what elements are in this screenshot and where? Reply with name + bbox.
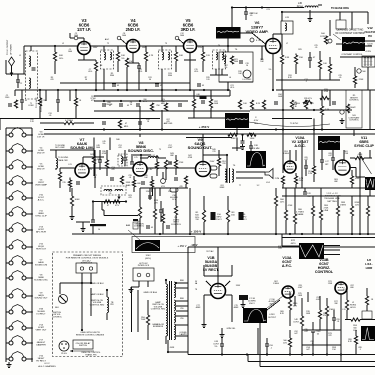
resistor height: [153, 188, 158, 234]
V9 grid parts: [168, 155, 184, 175]
svg-text:2.2M: 2.2M: [308, 173, 313, 175]
sound out texts: [168, 145, 226, 189]
left mid components: [5, 95, 18, 108]
wire y96 seg: [94, 95, 230, 97]
tube V7 6AU6: [70, 137, 94, 178]
+450V text: [177, 244, 186, 248]
video extra text: [278, 94, 299, 125]
wire x340 vert: [330, 12, 340, 36]
wire top plate feed: [231, 6, 304, 27]
resistor V3 cathode: [94, 60, 102, 90]
svg-text:40MF: 40MF: [196, 307, 202, 309]
cap video: [308, 52, 316, 68]
wire IF grid line 2: [90, 45, 127, 47]
wire x360 sync vert: [360, 152, 372, 234]
waveform display B10 (spike): [361, 326, 375, 341]
svg-text:150 V: 150 V: [216, 219, 222, 221]
svg-text:60%: 60%: [365, 184, 369, 186]
pin texts V3: [77, 43, 90, 58]
wire y90 right: [310, 89, 375, 91]
svg-text:PHASE: PHASE: [297, 213, 304, 216]
cap row y226: [146, 226, 170, 229]
resistor vert hold: [171, 188, 182, 234]
resistor vert lin: [134, 188, 145, 234]
svg-text:TAKE OFF: TAKE OFF: [58, 159, 68, 162]
svg-text:140V: 140V: [142, 47, 147, 49]
right mid components: [238, 100, 278, 109]
svg-text:330K: 330K: [126, 182, 131, 184]
wire x162 vert: [161, 69, 163, 101]
svg-text:5%: 5%: [121, 58, 124, 60]
svg-text:5600: 5600: [234, 61, 238, 63]
svg-text:2.5V: 2.5V: [343, 289, 348, 291]
resistor 47 pair: [104, 200, 120, 207]
wire y196 right: [282, 195, 375, 197]
svg-text:10%: 10%: [299, 180, 303, 182]
svg-text:450 V: 450 V: [249, 303, 255, 305]
mid resistor R50: [141, 300, 150, 340]
svg-text:.1: .1: [311, 343, 313, 345]
socket column top wire: [6, 127, 32, 129]
wire y118 corner: [272, 119, 314, 130]
svg-text:47%: 47%: [91, 100, 95, 102]
wire V4 plate: [132, 53, 134, 59]
svg-text:1000: 1000: [96, 147, 100, 149]
svg-text:TO I.F. AGC: TO I.F. AGC: [35, 97, 38, 108]
svg-text:2ND I.F.: 2ND I.F.: [126, 27, 141, 32]
svg-text:GRN-YEL: GRN-YEL: [227, 328, 237, 330]
wire IF agc drops: [46, 90, 70, 101]
svg-text:50: 50: [130, 104, 132, 106]
right col texts: [288, 75, 342, 93]
components row y100: res: [38, 90, 46, 118]
svg-text:.0047: .0047: [298, 287, 303, 289]
wire y215 right: [104, 210, 138, 216]
svg-text:680: 680: [350, 287, 353, 289]
waveform display B6 (sync out): [365, 177, 375, 190]
svg-text:3300: 3300: [110, 75, 114, 77]
bottom res 148: [293, 298, 303, 355]
svg-text:R35 47%: R35 47%: [304, 98, 312, 100]
right top mid box: [336, 20, 346, 29]
V7 plate wire: [83, 154, 104, 165]
wire y110 agc long: [250, 109, 352, 111]
pin cap V5 grid: [175, 36, 184, 44]
wire x190 vert: [184, 53, 196, 61]
svg-text:BIAS: BIAS: [126, 224, 131, 227]
svg-text:C2: C2: [20, 83, 22, 85]
svg-text:TO SOUND: TO SOUND: [58, 157, 69, 159]
cap V8: [118, 150, 127, 166]
svg-text:T4: T4: [218, 45, 220, 47]
coil sound disc: [140, 155, 166, 158]
svg-text:5%: 5%: [103, 143, 106, 145]
svg-text:5%: 5%: [215, 346, 218, 348]
svg-text:SETTING: SETTING: [327, 201, 337, 203]
tube V3 6CB6: [77, 18, 91, 55]
horiz top texts: [323, 193, 342, 203]
svg-text:INTERLOCK: INTERLOCK: [81, 263, 93, 265]
svg-text:10%: 10%: [355, 204, 359, 206]
remote coil TB: [107, 290, 114, 320]
svg-text:470K: 470K: [324, 91, 329, 93]
wire x290 up: [283, 150, 290, 173]
left heater resistor: [69, 188, 80, 219]
svg-text:.05%: .05%: [138, 71, 143, 73]
bottom res 290: [283, 330, 292, 355]
waveform display B9 (horiz out): [243, 308, 267, 323]
wire det bottom: [219, 82, 253, 90]
svg-text:.1: .1: [359, 349, 361, 351]
svg-text:CONV.: CONV.: [28, 105, 34, 107]
V7 below parts: [62, 178, 80, 193]
text C30 400MFD: [170, 195, 178, 201]
heater row texts: [108, 191, 131, 199]
svg-text:6AQ5: 6AQ5: [38, 294, 44, 297]
svg-text:A.F.C.: A.F.C.: [282, 264, 292, 268]
svg-text:C23: C23: [266, 9, 269, 11]
column stub wires: [26, 135, 32, 359]
svg-text:CONTROL: CONTROL: [315, 270, 334, 274]
remote wires top: [60, 273, 104, 294]
svg-text:1: 1: [126, 41, 127, 43]
volume pot: [161, 172, 166, 188]
socket column ground: [6, 362, 56, 368]
svg-text:GRN: GRN: [170, 347, 175, 349]
svg-text:125V: 125V: [198, 47, 203, 49]
svg-text:CONTROL: CONTROL: [349, 120, 360, 122]
tube V9 6AQ5: [188, 137, 213, 177]
svg-text:L31: L31: [342, 309, 345, 311]
svg-text:470: 470: [118, 147, 121, 149]
svg-text:1000: 1000: [122, 35, 126, 37]
remote arrow: [70, 350, 94, 352]
svg-text:1 MEG: 1 MEG: [273, 283, 279, 285]
remote trans text: [82, 352, 102, 356]
svg-text:L2: L2: [62, 43, 64, 45]
svg-text:6AU6: 6AU6: [38, 261, 44, 264]
svg-text:100K: 100K: [74, 199, 80, 201]
mid caps under bus: [102, 120, 142, 128]
svg-text:1 MEG: 1 MEG: [283, 153, 289, 155]
top mid text: [250, 9, 269, 15]
svg-text:60%: 60%: [368, 46, 372, 48]
svg-text:CONTROL: CONTROL: [349, 100, 360, 102]
svg-text:5: 5: [138, 41, 139, 43]
svg-text:.01: .01: [337, 321, 340, 323]
svg-text:CONTROL RED: CONTROL RED: [151, 309, 166, 311]
V8 transformer T5: [118, 154, 127, 166]
svg-text:10K: 10K: [121, 55, 125, 57]
svg-text:4700MF: 4700MF: [106, 104, 114, 106]
bias cluster: [126, 219, 138, 229]
res horiz freq: [345, 318, 375, 332]
svg-text:LINE: LINE: [324, 210, 329, 212]
V8 top wire: [131, 154, 151, 162]
svg-text:SOUND LIM.: SOUND LIM.: [70, 145, 94, 150]
resistor video load: [294, 54, 303, 75]
brightness pot area: [339, 104, 356, 123]
bottom right extra wires: [295, 292, 320, 306]
waveform display B3 (sound disc): [225, 113, 259, 128]
svg-text:270: 270: [212, 151, 215, 153]
cap elec 1: [211, 212, 223, 221]
sync texts: [328, 151, 349, 183]
svg-text:1ST I.F.: 1ST I.F.: [77, 27, 91, 32]
svg-text:15K: 15K: [299, 57, 303, 59]
mid vertical wires remote: [132, 287, 139, 332]
svg-text:TO TUNER AGC: TO TUNER AGC: [40, 97, 43, 112]
svg-text:+ 250 V: + 250 V: [199, 125, 209, 129]
svg-text:CONTRAST CONTROL: CONTRAST CONTROL: [341, 53, 363, 56]
svg-text:3RD I.F.: 3RD I.F.: [181, 27, 196, 32]
wire det to V6 grid: [241, 33, 266, 44]
wire x228 det: [227, 46, 229, 52]
AGC wires: [283, 130, 314, 189]
mid texts y120: [30, 113, 150, 123]
res h small 303: [303, 98, 312, 104]
svg-text:5 AMPS: 5 AMPS: [179, 333, 187, 336]
wire y80 right: [276, 79, 340, 81]
diag line B9: [267, 296, 283, 308]
sound section bus: [186, 137, 232, 139]
remote dashed box: [53, 252, 123, 357]
svg-text:.0047: .0047: [168, 147, 173, 149]
svg-text:2.2M: 2.2M: [275, 178, 280, 180]
value text C67: [164, 119, 173, 125]
svg-text:INTERLOCK: INTERLOCK: [138, 265, 150, 267]
res horiz hold: [345, 290, 356, 320]
svg-text:56K: 56K: [59, 55, 63, 57]
svg-text:AFC HOR: AFC HOR: [36, 231, 46, 234]
transformer T1 (dashed box): [26, 46, 38, 99]
svg-text:INT.: INT.: [325, 164, 329, 166]
pin cap V4 grid: [117, 36, 126, 44]
components row y100: cap2: [56, 90, 60, 112]
interlock leads: [128, 281, 148, 292]
video texts: [260, 43, 317, 71]
misc dots buses: [95, 6, 277, 135]
svg-text:47%: 47%: [115, 205, 119, 207]
sound extra parts 1: [98, 150, 109, 176]
transformer labels: [179, 280, 187, 336]
svg-text:4.7K: 4.7K: [149, 55, 154, 57]
components row y100: res2: [74, 90, 81, 118]
wire x262 det: [261, 46, 263, 60]
value texts y98 row: [90, 96, 165, 106]
tube V13B: [315, 258, 347, 294]
sound out misc: [110, 176, 131, 187]
tube V11 6BE6: [335, 136, 374, 175]
waveform display B7 (vert): [128, 230, 160, 260]
svg-text:4.7 MEG: 4.7 MEG: [65, 120, 73, 122]
input from tuner symbol: [9, 57, 15, 76]
svg-text:3.9K: 3.9K: [285, 57, 290, 59]
svg-text:40MF: 40MF: [234, 307, 240, 309]
svg-text:350V: 350V: [236, 285, 241, 287]
cap 13K: [249, 141, 260, 151]
interlock box 1: [76, 260, 97, 274]
svg-text:+135V: +135V: [365, 51, 372, 53]
wire x341 b: [340, 354, 342, 362]
wire x216 verts: [216, 69, 222, 75]
text c48 cluster: [293, 102, 298, 108]
svg-text:450 V: 450 V: [269, 303, 275, 305]
bottom cap 222: [213, 338, 224, 355]
svg-text:TO BASE ORG: TO BASE ORG: [331, 6, 349, 10]
ps texts: [195, 281, 241, 309]
svg-text:3300: 3300: [168, 75, 172, 77]
wire x283 mid: [282, 90, 284, 130]
tube V5 6CB6: [181, 18, 197, 53]
wire x104 vert: [103, 69, 105, 90]
sound extra parts 3: [217, 150, 225, 176]
svg-text:20MF: 20MF: [220, 187, 226, 189]
svg-text:1 MEG: 1 MEG: [340, 204, 347, 206]
bottom wire y345: [302, 344, 341, 346]
sync B6 texts: [365, 180, 369, 186]
svg-text:470K: 470K: [102, 153, 107, 155]
remote extra dots: [81, 282, 108, 331]
wire x162 bus drop: [161, 110, 163, 130]
svg-text:LV RECT: LV RECT: [36, 314, 46, 316]
svg-text:750K: 750K: [141, 319, 146, 321]
V13B cathode: [341, 289, 348, 355]
svg-text:470K: 470K: [344, 153, 349, 155]
horiz resistors row: [284, 206, 369, 224]
svg-text:R40: R40: [116, 139, 119, 141]
transformer T4 (dashed box): [213, 50, 226, 69]
wire V6 cathode down: [272, 54, 274, 92]
svg-text:5%: 5%: [225, 67, 228, 69]
cap top horiz: [303, 188, 312, 198]
waveform display B1 (video det): [216, 27, 241, 46]
right mid components 2: [290, 96, 336, 109]
extra caps y85: [112, 84, 205, 87]
svg-text:.05: .05: [109, 193, 112, 195]
V7 input coil: [56, 150, 58, 170]
bottom caps: [311, 322, 321, 355]
wire y118 mid: [188, 117, 232, 119]
cap elec 2: [239, 212, 248, 221]
svg-text:.01%: .01%: [230, 87, 235, 89]
wire V3 plate: [78, 55, 96, 61]
waveform display B4 (sound out): [246, 151, 266, 168]
horiz wires vert lower: [286, 216, 368, 234]
right mid res y110: [320, 90, 329, 130]
transformer T2 (dashed box): [101, 46, 114, 69]
svg-text:8.2K: 8.2K: [256, 103, 261, 105]
horiz texts: [328, 281, 362, 351]
output transformer T7: [225, 165, 236, 183]
resistor sound 1: [58, 168, 61, 188]
wire sync out: [350, 168, 365, 178]
sync parts: [331, 150, 360, 188]
V10A half tube: [284, 136, 308, 173]
svg-text:117V AC: 117V AC: [206, 250, 214, 253]
ground cluster mid: [76, 222, 90, 231]
svg-text:1 MEG: 1 MEG: [329, 309, 336, 311]
svg-text:6.3 V: 6.3 V: [44, 363, 50, 365]
svg-text:100K: 100K: [355, 178, 360, 180]
wire B+ bus lower (full width): [44, 133, 375, 135]
wire x352 vert: [351, 12, 353, 30]
svg-text:CONT: CONT: [320, 36, 327, 38]
rotated texts left: [35, 97, 43, 112]
remote lower circle: [59, 341, 69, 355]
det box texts: [224, 65, 242, 79]
V12 label right edge: [364, 26, 375, 38]
sound input text: [58, 157, 69, 162]
svg-text:T3: T3: [165, 43, 167, 45]
svg-text:VIDEO AMP: VIDEO AMP: [35, 184, 48, 187]
wire x190 vert mid: [189, 188, 191, 235]
svg-text:T8: T8: [195, 289, 197, 291]
wire V3 grid vert: [24, 46, 26, 74]
svg-text:+ 450 V: + 450 V: [177, 244, 186, 248]
IF pin texts: [74, 33, 184, 37]
wire x102 branch: [102, 202, 104, 211]
bottom texts2: [306, 347, 337, 351]
cap C30 at 160: [159, 201, 163, 222]
extra verticals right: [330, 90, 354, 160]
svg-text:GRAY OR BLA: GRAY OR BLA: [143, 291, 157, 294]
B4 input wire: [232, 148, 242, 151]
svg-text:.05: .05: [339, 77, 342, 79]
bottom right infill 3: [348, 330, 358, 355]
svg-text:L25: L25: [134, 157, 137, 159]
y90 dots: [39, 89, 177, 91]
V9 plate wire: [203, 154, 228, 168]
rotated tuner text: [7, 39, 13, 55]
svg-text:BUSINESS: BUSINESS: [153, 326, 164, 328]
IF extra text row: [50, 77, 209, 81]
svg-text:470: 470: [128, 197, 131, 199]
wire y83 row: [60, 82, 190, 84]
V7 screen res: [92, 150, 102, 176]
tube socket column circles: [9, 128, 26, 362]
svg-text:L23: L23: [68, 164, 71, 166]
svg-text:SOUND DISC: SOUND DISC: [34, 280, 48, 282]
agc line long: [15, 90, 230, 96]
svg-text:.05%: .05%: [88, 71, 93, 73]
left edge wire: [0, 119, 1, 131]
resistor 110K horiz: [241, 133, 256, 140]
V right label: [365, 258, 373, 270]
IF value texts 2: [62, 43, 220, 47]
resistor V4 screen: [144, 46, 153, 72]
disc texts: [118, 145, 174, 179]
wire V1B top: [204, 265, 232, 284]
resistor 160 cath: [226, 196, 235, 234]
svg-text:470: 470: [111, 169, 114, 171]
bottom right infill 1: [318, 302, 328, 330]
ps area text: [195, 250, 214, 291]
row y101 wire: [94, 100, 188, 102]
svg-text:.01: .01: [129, 177, 132, 179]
V13A pin text: [278, 246, 283, 250]
svg-text:HOR OUT: HOR OUT: [36, 249, 47, 251]
cap 40MFD blob: [239, 295, 256, 307]
svg-text:PRI: PRI: [110, 304, 114, 306]
wire y330 seg: [302, 329, 341, 331]
svg-text:21ALP4A: 21ALP4A: [364, 30, 375, 34]
choke + cap at top: [297, 2, 313, 21]
wire video top: [282, 12, 307, 21]
svg-text:120K: 120K: [230, 138, 236, 140]
wire x84 grid: [70, 33, 84, 42]
yoke area texts: [298, 293, 339, 345]
